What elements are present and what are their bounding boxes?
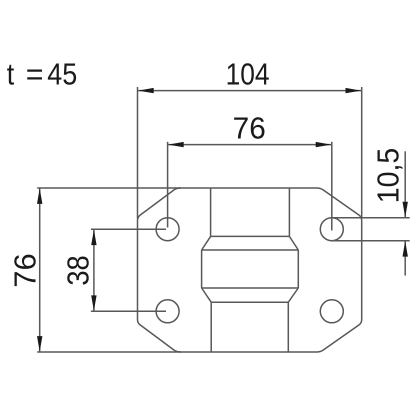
svg-text:76: 76 xyxy=(233,111,266,146)
svg-text:t: t xyxy=(7,58,14,92)
dimension line 10,5 upper xyxy=(404,151,406,217)
arrowhead 76-top right xyxy=(316,142,332,147)
arrowhead 76-left up xyxy=(37,188,42,204)
svg-text:10,5: 10,5 xyxy=(372,148,406,203)
arrowhead 104 left xyxy=(138,88,154,93)
channel lower horizontal xyxy=(211,301,288,303)
channel upper horizontal xyxy=(211,235,290,237)
extension line hole TR vertical xyxy=(331,142,333,231)
channel wide left vertical xyxy=(201,250,203,288)
svg-text:76: 76 xyxy=(7,253,42,287)
plate outline xyxy=(138,188,362,352)
extension line hole BL horizontal xyxy=(91,310,166,312)
arrowhead 10,5 down-pointing xyxy=(403,202,408,218)
extension tangent top of TR hole xyxy=(331,217,410,219)
svg-text:45: 45 xyxy=(47,58,77,92)
arrowhead 76-left down xyxy=(37,336,42,352)
extension line top edge left xyxy=(37,187,181,189)
extension line bottom edge left xyxy=(37,351,181,353)
extension line hole TL horizontal xyxy=(91,228,166,230)
arrowhead 104 right xyxy=(346,88,362,93)
channel wide top horizontal xyxy=(202,249,299,251)
hole bottom-right xyxy=(320,300,343,323)
channel lower left vertical xyxy=(210,302,212,352)
channel upper right vertical xyxy=(288,188,290,236)
extension line hole TL vertical xyxy=(167,142,169,228)
dimension line 10,5 lower xyxy=(404,241,406,276)
channel lower right chamfer xyxy=(288,288,298,302)
channel upper left chamfer xyxy=(202,236,211,250)
arrowhead 38 up xyxy=(91,230,96,246)
hole top-right xyxy=(320,218,343,241)
extension line left edge up xyxy=(137,87,139,219)
channel lower left chamfer xyxy=(202,288,212,302)
channel wide right vertical xyxy=(297,250,299,288)
extension tangent bottom of TR hole xyxy=(331,240,410,242)
channel upper right chamfer xyxy=(289,236,298,250)
extension line right edge up xyxy=(361,87,363,219)
arrowhead 76-top left xyxy=(168,142,184,147)
channel wide bottom horizontal xyxy=(202,287,299,289)
arrowhead 10,5 up-pointing xyxy=(403,241,408,257)
hole bottom-left xyxy=(156,300,179,323)
svg-text:104: 104 xyxy=(226,57,270,91)
svg-text:=: = xyxy=(26,56,44,91)
channel lower right vertical xyxy=(287,302,289,352)
dimension line 104 xyxy=(138,90,361,92)
channel upper left vertical xyxy=(210,188,212,236)
dimension line 38 xyxy=(93,230,95,311)
svg-text:38: 38 xyxy=(62,255,96,285)
arrowhead 38 down xyxy=(91,295,96,311)
dimension line 76 left xyxy=(39,188,41,351)
hole top-left xyxy=(156,218,179,241)
dimension line 76 top xyxy=(168,144,331,146)
